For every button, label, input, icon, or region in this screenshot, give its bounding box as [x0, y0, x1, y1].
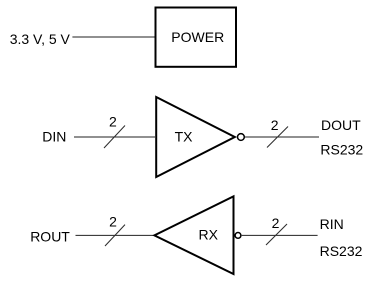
svg-text:RS232: RS232 — [320, 141, 363, 157]
bus slash DIN — [104, 126, 125, 149]
wire DOUT — [245, 136, 319, 138]
svg-text:DOUT: DOUT — [321, 117, 361, 133]
svg-text:2: 2 — [109, 114, 117, 130]
buffer RX — [154, 196, 233, 274]
bus slash ROUT — [105, 225, 125, 246]
wire RIN — [242, 234, 318, 236]
bus slash RIN — [266, 224, 287, 245]
svg-text:ROUT: ROUT — [30, 229, 70, 245]
svg-text:POWER: POWER — [171, 29, 224, 45]
inverter bubble RX — [235, 233, 241, 239]
svg-text:RX: RX — [199, 226, 219, 242]
svg-text:3.3 V, 5 V: 3.3 V, 5 V — [10, 31, 71, 47]
bus slash DOUT — [267, 127, 288, 148]
svg-text:2: 2 — [109, 214, 117, 230]
svg-text:2: 2 — [272, 215, 280, 231]
svg-text:2: 2 — [271, 117, 279, 133]
wire ROUT — [76, 234, 155, 236]
svg-text:RS232: RS232 — [320, 243, 363, 259]
svg-text:DIN: DIN — [42, 129, 66, 145]
inverter bubble TX — [238, 134, 245, 141]
svg-text:RIN: RIN — [320, 216, 344, 232]
power block — [156, 8, 237, 67]
wire DIN — [74, 136, 155, 138]
wire power input — [72, 36, 155, 38]
buffer TX — [156, 97, 235, 177]
svg-text:TX: TX — [175, 129, 194, 145]
